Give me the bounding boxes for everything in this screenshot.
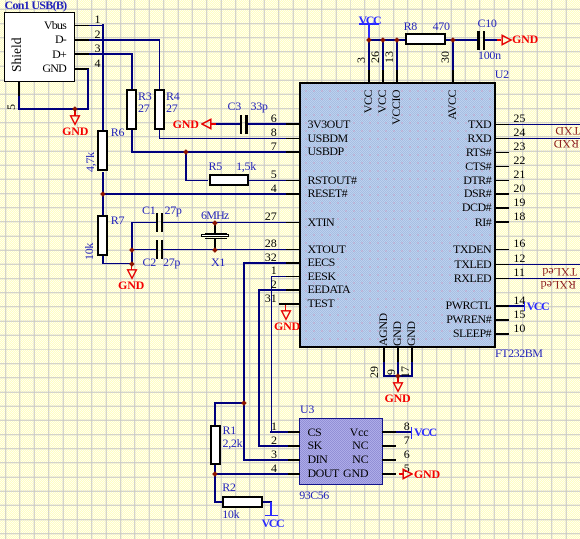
power VCC at U3 pin 8 xyxy=(411,427,413,439)
U2 pin 19 DCD# xyxy=(495,207,510,209)
wire DOUT row xyxy=(215,473,288,475)
ground triangle U3 pin5 xyxy=(402,468,413,480)
Con1 pin stub xyxy=(74,25,89,27)
connector Con1 USB(B) box xyxy=(4,12,75,83)
wire USBDP branch to R5 xyxy=(185,151,187,180)
ground symbol at TEST xyxy=(280,310,292,322)
label Con1 USB(B) xyxy=(5,0,67,11)
label GND C10 xyxy=(512,33,538,45)
U3 pin 8 Vcc xyxy=(382,431,396,433)
U2 pin 21 DTR# xyxy=(495,180,510,182)
label VCC rail xyxy=(359,14,381,26)
value 100n xyxy=(478,49,501,61)
wire U2 bottom GND pin drop x=397.7 xyxy=(397,362,399,377)
U2 bottom pin 17 GND xyxy=(411,347,413,362)
wire C3 right to 3V3OUT pin 6 xyxy=(248,123,287,125)
U2 pin 14 PWRCTL xyxy=(495,305,510,307)
capacitor C10 xyxy=(477,31,479,50)
U2 top pin 13 VCCIO xyxy=(396,70,398,84)
U2 pin 31 TEST xyxy=(279,303,300,305)
U2 pin 24 RXD xyxy=(495,138,510,140)
U2 pin 4 RESET# xyxy=(286,193,300,195)
value 27 xyxy=(166,102,177,114)
Con1 pin name Shield xyxy=(11,38,23,73)
wire R2 right xyxy=(263,501,272,503)
power VCC symbol at rail xyxy=(359,23,378,25)
net label TXD xyxy=(555,125,580,137)
wire TEST pin GND stem xyxy=(285,304,287,311)
label 93C56 xyxy=(299,489,329,501)
label R5 xyxy=(209,160,222,172)
net label RXD xyxy=(554,138,579,150)
junction xyxy=(380,38,385,43)
wire TXLed pin 12 net xyxy=(509,264,580,266)
label GND C3 xyxy=(173,118,199,130)
wire EECS pin 32 to U3 DIN xyxy=(244,262,287,264)
wire EESK pin 1 to U3 CS xyxy=(271,276,286,278)
label R8 xyxy=(404,20,417,32)
junction xyxy=(213,472,218,477)
label VCC pin14 xyxy=(527,300,549,312)
net label TXLed xyxy=(541,266,577,278)
U2 pin 1 EESK xyxy=(286,276,300,278)
ground symbol below U2 xyxy=(392,382,404,394)
wire EEDATA pin 2 to U3 SK xyxy=(259,289,287,291)
ground stem at C2 xyxy=(131,263,133,270)
U2 pin 7 USBDP xyxy=(286,151,300,153)
resistor R7 xyxy=(97,215,108,256)
value 27p xyxy=(165,204,182,216)
wire U3 Vcc pin 8 to VCC xyxy=(396,431,412,433)
label R4 xyxy=(166,90,179,102)
label R2 xyxy=(222,481,235,493)
ground symbol at U3 pin 5 xyxy=(399,473,403,475)
Con1 pin number 2 xyxy=(80,28,101,40)
Con1 pin number 4 xyxy=(80,57,101,69)
wire RXLed pin 11 net xyxy=(509,278,580,280)
value 470 xyxy=(433,20,450,32)
label U2 xyxy=(495,68,509,80)
U3 pin 3 DIN xyxy=(288,459,300,461)
U3 pin 4 DOUT xyxy=(288,473,300,475)
junction xyxy=(73,107,78,112)
U3 pin 2 SK xyxy=(288,445,300,447)
junction xyxy=(366,38,371,43)
wire VCC rail drop x=369.1 xyxy=(368,39,370,70)
resistor R3 xyxy=(126,89,137,130)
wire C1 left / C2 left / GND vertical xyxy=(132,222,156,224)
Con1 pin name D- xyxy=(30,33,66,45)
label GND Con1 xyxy=(62,125,88,137)
label R1 xyxy=(223,424,236,436)
ground symbol at C2 xyxy=(126,269,138,281)
U2 bottom pin 29 AGND xyxy=(383,347,385,362)
value 4,7k xyxy=(84,152,96,172)
label R7 xyxy=(111,214,124,226)
Con1 pin number 1 xyxy=(80,13,101,25)
U2 pin 15 PWREN# xyxy=(495,319,510,321)
label X1 xyxy=(211,256,225,268)
power VCC at R2 xyxy=(265,515,279,517)
U2 top pin 30 AVCC xyxy=(452,70,454,84)
value 27 xyxy=(138,102,149,114)
wire shield pin 5 down xyxy=(18,96,20,111)
Con1 pin name D+ xyxy=(30,48,66,60)
wire GND to C3 left xyxy=(216,123,240,125)
wire R1 bottom to R2 left xyxy=(214,465,216,504)
value 33p xyxy=(251,100,268,112)
U3 pin 7 NC xyxy=(382,445,396,447)
U2 pin 25 TXD xyxy=(495,124,510,126)
capacitor C1 xyxy=(156,213,158,232)
wire C1 right to XTIN pin 27 xyxy=(163,222,286,224)
capacitor C3 xyxy=(240,115,242,134)
resistor R6 xyxy=(97,130,108,171)
wire U2 bottom GND pin drop x=383.7 xyxy=(383,362,385,377)
Con1 pin stub xyxy=(74,39,89,41)
U2 pin 32 EECS xyxy=(286,262,300,264)
U2 pin 8 USBDM xyxy=(286,138,300,140)
label C3 xyxy=(228,100,241,112)
U2 pin 28 XTOUT xyxy=(286,249,300,251)
value 2,2k xyxy=(223,437,243,449)
label GND U3 xyxy=(414,468,440,480)
label 6MHz xyxy=(201,209,228,221)
label GND U2 xyxy=(384,392,410,404)
ground symbol at Con1 xyxy=(69,115,81,127)
U3 pin 6 NC xyxy=(382,459,396,461)
wire U2 bottom GND pin drop x=411.7 xyxy=(411,362,413,377)
label VCC U3 xyxy=(414,426,436,438)
wire C10 right to GND xyxy=(485,39,497,41)
U2 pin 27 XTIN xyxy=(286,222,300,224)
junction xyxy=(394,38,399,43)
U2 pin 23 RTS# xyxy=(495,152,510,154)
U2 pin 20 DSR# xyxy=(495,193,510,195)
junction xyxy=(241,401,246,406)
Con1 pin stub xyxy=(74,68,89,70)
junction xyxy=(100,192,105,197)
Con1 pin number 5 xyxy=(5,104,17,110)
power VCC at PWRCTL pin 14 xyxy=(524,302,526,312)
value 10k xyxy=(83,243,95,260)
U2 pin 12 TXLED xyxy=(495,264,510,266)
wire R3 bottom to USBDP pin 7 xyxy=(131,130,133,153)
label VCC R2 xyxy=(262,517,284,529)
wire GND stem below U2 bottom junction xyxy=(397,376,399,382)
U2 pin 2 EEDATA xyxy=(286,289,300,291)
Con1 pin number 3 xyxy=(80,42,101,54)
junction xyxy=(184,150,189,155)
wire U2 bottom GND join xyxy=(383,375,413,377)
value 27p xyxy=(163,256,180,268)
label GND TEST xyxy=(274,320,300,332)
ground stem at Con1 xyxy=(74,109,76,116)
wire Vbus net: pin1 to R6 top xyxy=(89,25,103,27)
Con1 pin stub xyxy=(74,53,89,55)
junction xyxy=(395,373,400,378)
wire USB GND pin to shield junction xyxy=(87,69,89,110)
wire TXD pin 25 net xyxy=(509,124,580,126)
Con1 shield pin stub xyxy=(18,82,20,96)
IC U3 93C56 body xyxy=(299,418,383,486)
ground symbol at C10 xyxy=(501,34,512,46)
label GND C2 xyxy=(118,279,144,291)
net label RXLed xyxy=(540,279,576,291)
wire D- net: pin2 to R4 top xyxy=(89,39,160,41)
resistor R4 xyxy=(154,89,165,130)
wire RESET# net: R6/R7 junction to pin 4 xyxy=(103,193,287,195)
Con1 pin name Vbus xyxy=(30,19,66,31)
U2 pin 10 SLEEP# xyxy=(495,333,510,335)
label C10 xyxy=(478,17,497,29)
wire VCC rail drop x=397.1 xyxy=(396,39,398,70)
label C2 xyxy=(143,256,156,268)
resistor R8 xyxy=(405,33,446,45)
ground symbol at C3 xyxy=(211,123,216,125)
ground triangle C3 xyxy=(201,118,212,130)
wire RXD pin 24 net xyxy=(509,138,580,140)
U2 pin 18 RI# xyxy=(495,221,510,223)
capacitor C2 xyxy=(156,240,158,259)
value 1,5k xyxy=(236,160,256,172)
wire R6 bottom through junction to R7 top xyxy=(102,172,104,216)
U2 pin 6 3V3OUT xyxy=(286,123,300,125)
U2 top pin 3 VCC xyxy=(368,70,370,84)
wire PWRCTL pin 14 to VCC xyxy=(509,305,524,307)
wire crystal stems xyxy=(214,223,216,233)
label U3 xyxy=(300,403,314,415)
op-amp U2 FT232BM body xyxy=(299,82,496,348)
resistor R5 xyxy=(209,174,249,187)
U3 pin 5 GND xyxy=(382,473,396,475)
U2 pin 5 RSTOUT# xyxy=(286,180,300,182)
U2 bottom pin 9 GND xyxy=(397,347,399,362)
junction xyxy=(129,247,134,252)
Con1 pin name GND xyxy=(30,62,66,74)
junction xyxy=(212,247,217,252)
wire VCC rail drop x=453.1 xyxy=(452,39,454,70)
label R6 xyxy=(111,126,124,138)
wire VCC rail xyxy=(369,39,405,41)
label C1 xyxy=(142,204,155,216)
U2 top pin 26 VCC xyxy=(382,70,384,84)
wire C2 right to XTOUT pin 28 xyxy=(163,249,286,251)
label R3 xyxy=(138,90,151,102)
resistor R2 xyxy=(222,496,263,508)
wire R1 top branch xyxy=(214,402,244,404)
wire R4 bottom to USBDM pin 8 xyxy=(159,130,161,139)
U2 pin 22 CTS# xyxy=(495,166,510,168)
resistor R1 xyxy=(210,425,221,465)
junction xyxy=(129,261,134,266)
wire VCC rail drop x=383.1 xyxy=(382,39,384,70)
label FT232BM xyxy=(495,347,543,359)
junction xyxy=(212,220,217,225)
U2 pin 16 TXDEN xyxy=(495,249,510,251)
U2 pin 11 RXLED xyxy=(495,278,510,280)
junction xyxy=(450,38,455,43)
value 10k xyxy=(222,508,239,520)
wire D+ net: pin3 to R3 top xyxy=(89,53,132,55)
wire R7 bottom to GND corner xyxy=(102,256,104,264)
U3 pin 1 CS xyxy=(288,431,300,433)
wire R5 right to RSTOUT# pin 5 xyxy=(249,180,287,182)
crystal X1 xyxy=(205,233,227,234)
